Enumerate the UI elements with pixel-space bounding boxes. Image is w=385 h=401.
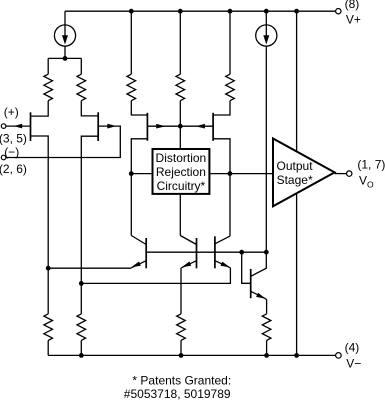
junction base rail to Q8 collector: [264, 250, 269, 255]
wire output stage down to V- rail: [296, 194, 298, 356]
wire left column upper: [47, 58, 49, 74]
svg-text:Rejection: Rejection: [156, 165, 206, 179]
wire second column to R7: [80, 283, 82, 355]
wire bottom V- rail: [48, 354, 336, 356]
svg-text:Stage*: Stage*: [277, 173, 313, 187]
wire R3 to Q3 drain: [131, 101, 147, 115]
Q8 emitter lead: [251, 291, 266, 298]
wire top V+ rail: [65, 10, 335, 12]
wire R2 column and Q2 drain: [81, 58, 98, 116]
transistor Q3 bar: [146, 113, 148, 141]
transistor Q1 bar: [30, 112, 32, 141]
svg-text:(3, 5): (3, 5): [0, 131, 27, 145]
wire output to terminal: [335, 173, 347, 175]
Q8 emitter arrowhead: [256, 293, 266, 299]
Q1 gate arrowhead: [13, 124, 22, 129]
wire Q4 gate to node: [180, 125, 213, 127]
junction base rail to Q8 base: [239, 250, 244, 255]
resistor R5: [226, 74, 235, 101]
svg-text:Circuitry*: Circuitry*: [157, 179, 206, 193]
junction top rail M1: [129, 9, 134, 14]
wire main node line right: [210, 173, 273, 175]
svg-text:Distortion: Distortion: [156, 151, 207, 165]
wire (-) input to Q2 gate: [6, 126, 120, 157]
svg-text:VO: VO: [359, 173, 374, 189]
wire M2 column from rail: [179, 11, 181, 74]
Q2 gate arrowhead: [107, 124, 117, 129]
wire Q1 source down: [31, 136, 49, 268]
wire Q3 gate to node: [147, 125, 180, 127]
wire box bottom to Q6 collector: [179, 194, 181, 236]
wire Q8 emitter down: [266, 299, 267, 314]
svg-text:(2, 6): (2, 6): [0, 162, 27, 176]
node gate center junction: [178, 124, 183, 129]
junction top rail I2: [264, 9, 269, 14]
wire M1 column from rail: [130, 11, 132, 74]
transistor Q6 bar: [196, 238, 198, 268]
wire current-source-1 tee bar: [48, 57, 81, 59]
junction left column emitter: [46, 266, 51, 271]
Q6 collector lead: [180, 236, 196, 245]
transistor Q4 bar: [212, 113, 214, 141]
Q7 emitter arrowhead: [221, 262, 231, 268]
wire left column to R6: [47, 268, 49, 355]
current source I1: [54, 11, 75, 58]
junction Q2-source emitter wire: [79, 281, 84, 286]
resistor R8 center bottom: [177, 314, 186, 340]
svg-text:(4): (4): [345, 340, 360, 354]
distortion rejection circuitry box: [153, 149, 210, 194]
wire I2 down to mirror: [265, 46, 267, 252]
resistor R6 left bottom: [44, 314, 53, 340]
resistor R7 second bottom: [77, 314, 86, 340]
Q4 gate arrowhead: [195, 124, 205, 129]
wire R8 to rail: [180, 340, 182, 355]
wire R9 to rail: [266, 340, 268, 355]
wire main node line left: [131, 173, 151, 175]
wire Q5 emitter to left column: [48, 267, 131, 269]
transistor Q5 bar: [145, 238, 147, 268]
junction bottom rail x181: [179, 353, 184, 358]
svg-text:#5053718, 5019789: #5053718, 5019789: [124, 387, 231, 401]
wire mirror base rail: [146, 251, 266, 253]
Q6 emitter lead: [181, 261, 196, 268]
wire M2 column to box: [179, 101, 181, 148]
transistor Q8 bar: [250, 269, 252, 298]
svg-text:(8): (8): [345, 0, 360, 11]
op-amp output stage triangle: [273, 139, 335, 207]
terminal (8) V+: [336, 9, 341, 14]
junction top rail right: [294, 9, 299, 14]
transistor Q7 bar: [214, 236, 216, 268]
wire V+ down to output stage: [296, 11, 298, 151]
wire M3 column from rail: [229, 11, 231, 74]
wire Q1 gate from (+) input: [6, 125, 31, 127]
wire Q8 base lead: [242, 252, 251, 283]
junction bottom rail x296: [294, 353, 299, 358]
svg-text:(1, 7): (1, 7): [357, 157, 385, 171]
terminal (4) V-: [336, 353, 342, 359]
junction bottom rail x266: [264, 353, 269, 358]
current source I2: [256, 11, 277, 46]
svg-text:V−: V−: [346, 356, 361, 370]
wire Q2 source down: [81, 136, 98, 283]
Q6 emitter arrowhead: [182, 262, 192, 268]
Q5 emitter arrowhead: [131, 262, 141, 268]
terminal (+) input: [1, 124, 6, 129]
Q5 collector lead: [131, 236, 146, 245]
resistor R2: [77, 74, 86, 101]
svg-text:* Patents Granted:: * Patents Granted:: [132, 373, 231, 387]
svg-text:Output: Output: [277, 159, 314, 173]
junction main-left: [129, 171, 134, 176]
wire Q4 drain to R5: [213, 101, 230, 115]
junction below I1: [63, 56, 68, 61]
wire Q3 source down: [131, 139, 147, 236]
terminal (-) input: [1, 155, 6, 160]
wire Q7 emitter down and left: [81, 268, 230, 284]
junction main-right: [228, 171, 233, 176]
junction bottom rail x81: [79, 353, 84, 358]
resistor R3: [127, 74, 136, 101]
svg-text:V+: V+: [346, 12, 361, 26]
terminal (1,7) Vo: [347, 171, 352, 176]
junction top rail M3: [228, 9, 233, 14]
Q3 gate arrowhead: [156, 124, 166, 129]
junction top rail M2: [178, 9, 183, 14]
resistor R9 right bottom: [262, 314, 271, 340]
wire R1 to Q1 drain: [31, 101, 49, 116]
wire Q6 emitter down: [180, 268, 182, 314]
transistor Q2 bar: [97, 112, 99, 141]
wire Q4 source down: [213, 139, 230, 236]
Q5 emitter lead: [131, 261, 146, 268]
wire Q8 collector lead: [251, 252, 267, 276]
svg-text:(+): (+): [4, 105, 19, 119]
Q7 collector lead: [215, 236, 230, 244]
Q7 emitter lead: [215, 261, 231, 268]
resistor R4: [176, 74, 185, 101]
resistor R1: [44, 74, 53, 101]
